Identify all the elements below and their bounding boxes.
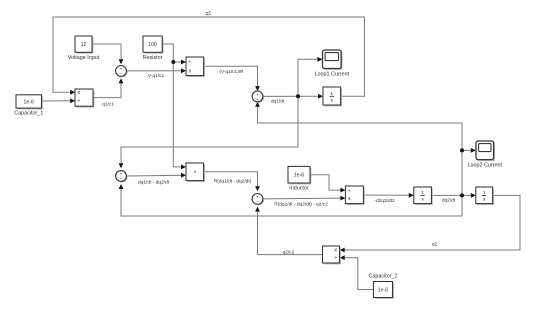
svg-text:1e-6: 1e-6: [24, 99, 34, 105]
svg-text:÷: ÷: [334, 255, 337, 261]
svg-text:1: 1: [483, 190, 486, 195]
svg-text:-d2q2/dt2: -d2q2/dt2: [374, 198, 395, 204]
svg-text:q2: q2: [432, 241, 438, 247]
svg-text:q2/c2: q2/c2: [283, 249, 295, 255]
svg-text:1: 1: [331, 91, 334, 96]
svg-text:Capacitor_2: Capacitor_2: [368, 274, 397, 280]
svg-text:÷: ÷: [188, 60, 191, 66]
svg-text:+: +: [256, 97, 259, 102]
svg-text:dq1/dt: dq1/dt: [271, 99, 285, 105]
svg-text:1e-6: 1e-6: [294, 173, 304, 179]
svg-text:(V-q1/c1)/R: (V-q1/c1)/R: [219, 69, 244, 75]
svg-text:R(dq1/dt - dq2/dt): R(dq1/dt - dq2/dt): [214, 178, 252, 184]
svg-text:÷: ÷: [77, 99, 80, 105]
svg-text:dq1/dt - dq2/dt: dq1/dt - dq2/dt: [138, 179, 170, 185]
svg-text:1: 1: [421, 190, 424, 195]
svg-text:dq2/dt: dq2/dt: [442, 197, 456, 203]
svg-text:V-q1/c1: V-q1/c1: [148, 73, 165, 79]
svg-text:R(dq1/dt - dq2/dt) - q2/c2: R(dq1/dt - dq2/dt) - q2/c2: [274, 201, 328, 207]
svg-text:1e-6: 1e-6: [378, 288, 388, 294]
svg-text:Capacitor_1: Capacitor_1: [14, 111, 43, 117]
svg-text:−: −: [120, 71, 123, 76]
svg-text:12: 12: [81, 42, 87, 48]
svg-text:÷: ÷: [348, 188, 351, 194]
svg-text:q1/c1: q1/c1: [102, 102, 114, 108]
svg-text:Resistor: Resistor: [143, 55, 163, 61]
svg-text:Voltage Input: Voltage Input: [68, 55, 100, 61]
svg-text:Loop2 Current: Loop2 Current: [468, 162, 503, 168]
svg-text:Inductor: Inductor: [289, 186, 309, 192]
svg-text:100: 100: [148, 42, 157, 48]
svg-text:−: −: [256, 199, 259, 204]
svg-text:Loop1 Current: Loop1 Current: [315, 71, 350, 77]
svg-text:q1: q1: [206, 11, 212, 17]
svg-text:−: −: [120, 176, 123, 181]
